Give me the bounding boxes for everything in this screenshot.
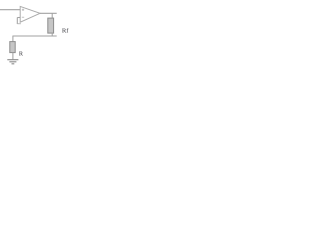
node A feedback rail — [13, 35, 57, 37]
op-amp U1 — [20, 6, 40, 22]
wire R bottom stem — [12, 53, 14, 60]
minus marking on inverting input — [22, 16, 24, 18]
wire inverting input vertical — [16, 18, 18, 25]
svg-text:R: R — [19, 50, 24, 57]
ground — [7, 60, 18, 64]
wire output — [40, 12, 57, 14]
wire Rf bottom drop — [51, 33, 53, 36]
svg-text:Rf: Rf — [62, 28, 69, 35]
wire input to non-inverting input — [0, 9, 20, 11]
wire inverting input stub — [17, 17, 20, 19]
wire Rf top drop — [51, 13, 53, 18]
resistor R — [10, 42, 15, 53]
wire R top stub — [12, 36, 14, 42]
plus marking on non-inverting input — [22, 9, 24, 11]
resistor Rf — [48, 18, 54, 33]
wire faint jog to node — [17, 23, 21, 25]
